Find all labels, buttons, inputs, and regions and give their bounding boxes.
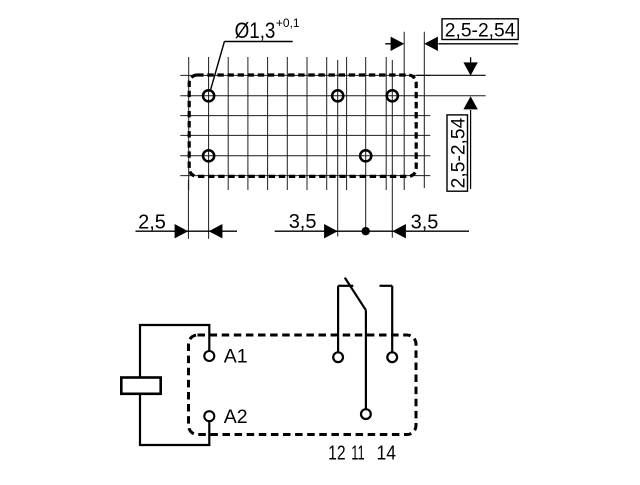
top dimension label box 2,5-2,54 bbox=[442, 19, 518, 42]
hole column line right (pin 14 column) bbox=[391, 60, 393, 238]
top dimension line right bbox=[438, 43, 518, 45]
svg-text:2,5: 2,5 bbox=[138, 211, 166, 233]
hole bottom-middle bbox=[360, 150, 371, 161]
pin 14 circle bbox=[387, 352, 397, 362]
svg-text:2,5-2,54: 2,5-2,54 bbox=[448, 118, 470, 189]
svg-text:Ø1,3: Ø1,3 bbox=[235, 18, 276, 43]
bottom dimension 3,5 arrows bbox=[324, 224, 406, 238]
extension line for top dimension right bbox=[423, 32, 425, 188]
top dimension arrow left bbox=[391, 37, 438, 51]
extension line under PCB left edge bbox=[187, 180, 189, 239]
bottom dimension 3,5 line bbox=[275, 230, 469, 232]
hole bottom-left bbox=[203, 150, 214, 161]
coil wire top bbox=[140, 325, 209, 378]
hole column line mid (pin 12 column) bbox=[337, 60, 339, 237]
coil wire bottom bbox=[140, 394, 209, 445]
right dimension vertical tail bbox=[470, 110, 472, 189]
svg-text:12: 12 bbox=[328, 443, 346, 465]
svg-text:14: 14 bbox=[377, 443, 397, 465]
hole row line bottom bbox=[180, 155, 430, 157]
extension line for top dimension left bbox=[403, 32, 405, 190]
pin 11 circle bbox=[361, 409, 371, 419]
bottom dimension 2,5 line bbox=[136, 230, 238, 232]
hole column line (pin 11 column) bbox=[365, 57, 367, 231]
svg-text:2,5-2,54: 2,5-2,54 bbox=[445, 20, 516, 42]
pin 14 terminal (NO contact) bbox=[380, 286, 393, 353]
pin A1 terminal circle bbox=[204, 351, 214, 361]
svg-text:+0,1: +0,1 bbox=[276, 16, 300, 30]
relay outline dashed rounded rectangle (schematic) bbox=[189, 335, 417, 435]
PCB outline dashed rounded rectangle bbox=[189, 75, 416, 176]
grid horizontal lines bbox=[180, 75, 430, 175]
pin 11 common with movable blade bbox=[345, 278, 366, 410]
hole column line left (pin A1/A2 column) extended to bottom dimension bbox=[208, 57, 210, 239]
svg-text:3,5: 3,5 bbox=[289, 211, 317, 233]
bottom dimension junction dot bbox=[362, 227, 370, 235]
hole top-right bbox=[387, 90, 398, 101]
pin A2 terminal circle bbox=[204, 411, 214, 421]
svg-text:A2: A2 bbox=[224, 406, 248, 428]
right dimension up arrow bbox=[463, 96, 477, 109]
pin 12 circle bbox=[333, 352, 343, 362]
coil K1 bbox=[121, 378, 160, 394]
svg-text:11: 11 bbox=[351, 443, 365, 465]
bottom dimension 2,5 arrows bbox=[175, 224, 223, 238]
right dimension line top bbox=[417, 74, 486, 76]
svg-text:A1: A1 bbox=[224, 346, 248, 368]
hole row line top extended right bbox=[180, 95, 485, 97]
right dimension label box 2,5-2,54 rotated bbox=[447, 115, 470, 191]
svg-text:3,5: 3,5 bbox=[411, 212, 439, 234]
grid vertical lines bbox=[189, 57, 387, 190]
top dimension line tail left bbox=[385, 43, 391, 45]
leader line for hole diameter label bbox=[210, 42, 292, 91]
hole top-left bbox=[203, 90, 214, 101]
pin 12 terminal (NC contact) bbox=[338, 286, 353, 353]
hole top-middle bbox=[332, 90, 343, 101]
right dimension down arrow bbox=[463, 62, 477, 75]
